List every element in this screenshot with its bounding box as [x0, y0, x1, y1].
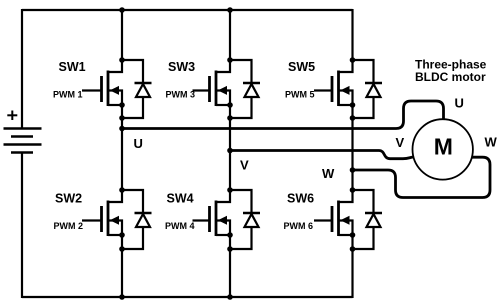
- svg-text:SW2: SW2: [55, 191, 82, 205]
- transistor SW3 channel: [215, 71, 218, 107]
- wire flyback diode branch of SW1: [122, 60, 143, 118]
- wire flyback diode branch of SW5: [353, 60, 374, 118]
- wire flyback diode branch of SW3: [230, 60, 252, 118]
- wire battery positive: [21, 9, 23, 129]
- transistor SW3 body arrow: [218, 86, 227, 95]
- junction dots column V: [227, 57, 233, 63]
- svg-text:SW5: SW5: [288, 60, 315, 74]
- wire SW1 gate lead PWM 1: [82, 89, 102, 91]
- flyback diode of SW1 triangle: [136, 84, 150, 97]
- transistor SW4 body arrow: [218, 216, 227, 225]
- svg-text:V: V: [396, 135, 405, 150]
- transistor SW5 body arrow: [340, 86, 349, 95]
- junction dots bottom rail: [119, 294, 125, 300]
- flyback diode of SW5 triangle: [367, 84, 381, 97]
- wire phase V to motor: [230, 151, 414, 159]
- transistor SW6 source stub: [339, 234, 353, 236]
- svg-text:W: W: [485, 135, 498, 150]
- flyback diode of SW2 cathode bar: [135, 212, 152, 215]
- transistor SW6 body arrow: [340, 216, 349, 225]
- wire SW3 gate lead PWM 3: [193, 89, 210, 91]
- svg-text:PWM 4: PWM 4: [165, 221, 195, 231]
- transistor SW6 gate bar: [331, 206, 334, 232]
- wire phase U to motor: [122, 101, 444, 129]
- transistor SW4 source stub: [216, 234, 230, 236]
- motor M: [413, 119, 473, 179]
- transistor SW3 source stub: [216, 104, 230, 106]
- transistor SW6 channel: [337, 201, 340, 237]
- flyback diode of SW3 cathode bar: [243, 82, 260, 85]
- flyback diode of SW4 cathode bar: [243, 212, 260, 215]
- wire SW6 source/body down to bottom rail: [340, 221, 353, 299]
- wire SW1 source/body down column U to SW2 drain: [108, 91, 122, 203]
- svg-text:V: V: [240, 158, 249, 173]
- transistor SW5 gate bar: [331, 76, 334, 102]
- wire SW2 source/body down to bottom rail: [109, 221, 122, 298]
- transistor SW1 gate bar: [100, 76, 103, 102]
- flyback diode of SW4 triangle: [245, 214, 259, 227]
- svg-text:U: U: [455, 96, 464, 111]
- transistor SW4 gate bar: [208, 206, 211, 232]
- transistor SW1 channel: [107, 71, 110, 107]
- svg-text:SW4: SW4: [167, 191, 194, 205]
- wire column U upper drain: [108, 10, 122, 72]
- svg-text:SW3: SW3: [168, 60, 195, 74]
- transistor SW2 channel: [107, 201, 110, 237]
- battery plus sign: [7, 111, 17, 121]
- svg-text:U: U: [134, 136, 143, 151]
- flyback diode of SW5 cathode bar: [365, 82, 382, 85]
- transistor SW3 gate bar: [208, 76, 211, 102]
- svg-text:PWM 1: PWM 1: [53, 89, 83, 99]
- transistor SW5 source stub: [339, 104, 353, 106]
- wire phase W to motor: [353, 157, 491, 197]
- wire SW3 source/body down column V to SW4 drain: [216, 91, 230, 203]
- junction dots column U: [119, 57, 125, 63]
- transistor SW5 channel: [337, 71, 340, 107]
- wire SW4 source/body down to bottom rail: [217, 221, 230, 298]
- flyback diode of SW3 triangle: [245, 84, 259, 97]
- transistor SW4 channel: [215, 201, 218, 237]
- wire SW6 gate lead PWM 6: [314, 219, 332, 221]
- transistor SW2 body arrow: [110, 216, 119, 225]
- wire battery negative: [21, 153, 23, 299]
- transistor SW1 body arrow: [110, 86, 119, 95]
- flyback diode of SW1 cathode bar: [135, 82, 152, 85]
- svg-text:PWM 2: PWM 2: [54, 221, 84, 231]
- transistor SW2 gate bar: [100, 206, 103, 232]
- junction dots top rail: [119, 7, 125, 13]
- svg-text:PWM 6: PWM 6: [284, 221, 314, 231]
- svg-text:M: M: [434, 134, 453, 160]
- svg-text:PWM 3: PWM 3: [166, 89, 196, 99]
- flyback diode of SW6 cathode bar: [365, 212, 382, 215]
- flyback diode of SW6 triangle: [367, 214, 381, 227]
- transistor SW1 source stub: [108, 104, 122, 106]
- bottom rail: [22, 296, 353, 298]
- wire column W upper drain: [339, 9, 353, 72]
- transistor SW2 source stub: [108, 234, 122, 236]
- wire SW5 gate lead PWM 5: [314, 89, 332, 91]
- top rail: [22, 9, 353, 11]
- wire SW4 gate lead PWM 4: [193, 219, 210, 221]
- wire SW5 source/body down column W to SW6 drain: [339, 91, 353, 203]
- wire flyback diode branch of SW6: [353, 190, 374, 249]
- svg-text:SW1: SW1: [59, 60, 86, 74]
- junction dots column W: [350, 57, 356, 63]
- wire SW2 gate lead PWM 2: [82, 219, 102, 221]
- wire column V upper drain: [216, 10, 230, 72]
- wire flyback diode branch of SW2: [122, 190, 143, 249]
- svg-text:SW6: SW6: [287, 191, 314, 205]
- svg-text:W: W: [322, 166, 335, 181]
- wire flyback diode branch of SW4: [230, 190, 252, 249]
- flyback diode of SW2 triangle: [136, 214, 150, 227]
- svg-text:PWM 5: PWM 5: [285, 89, 315, 99]
- battery V1: [4, 129, 42, 153]
- svg-text:BLDC motor: BLDC motor: [415, 70, 486, 84]
